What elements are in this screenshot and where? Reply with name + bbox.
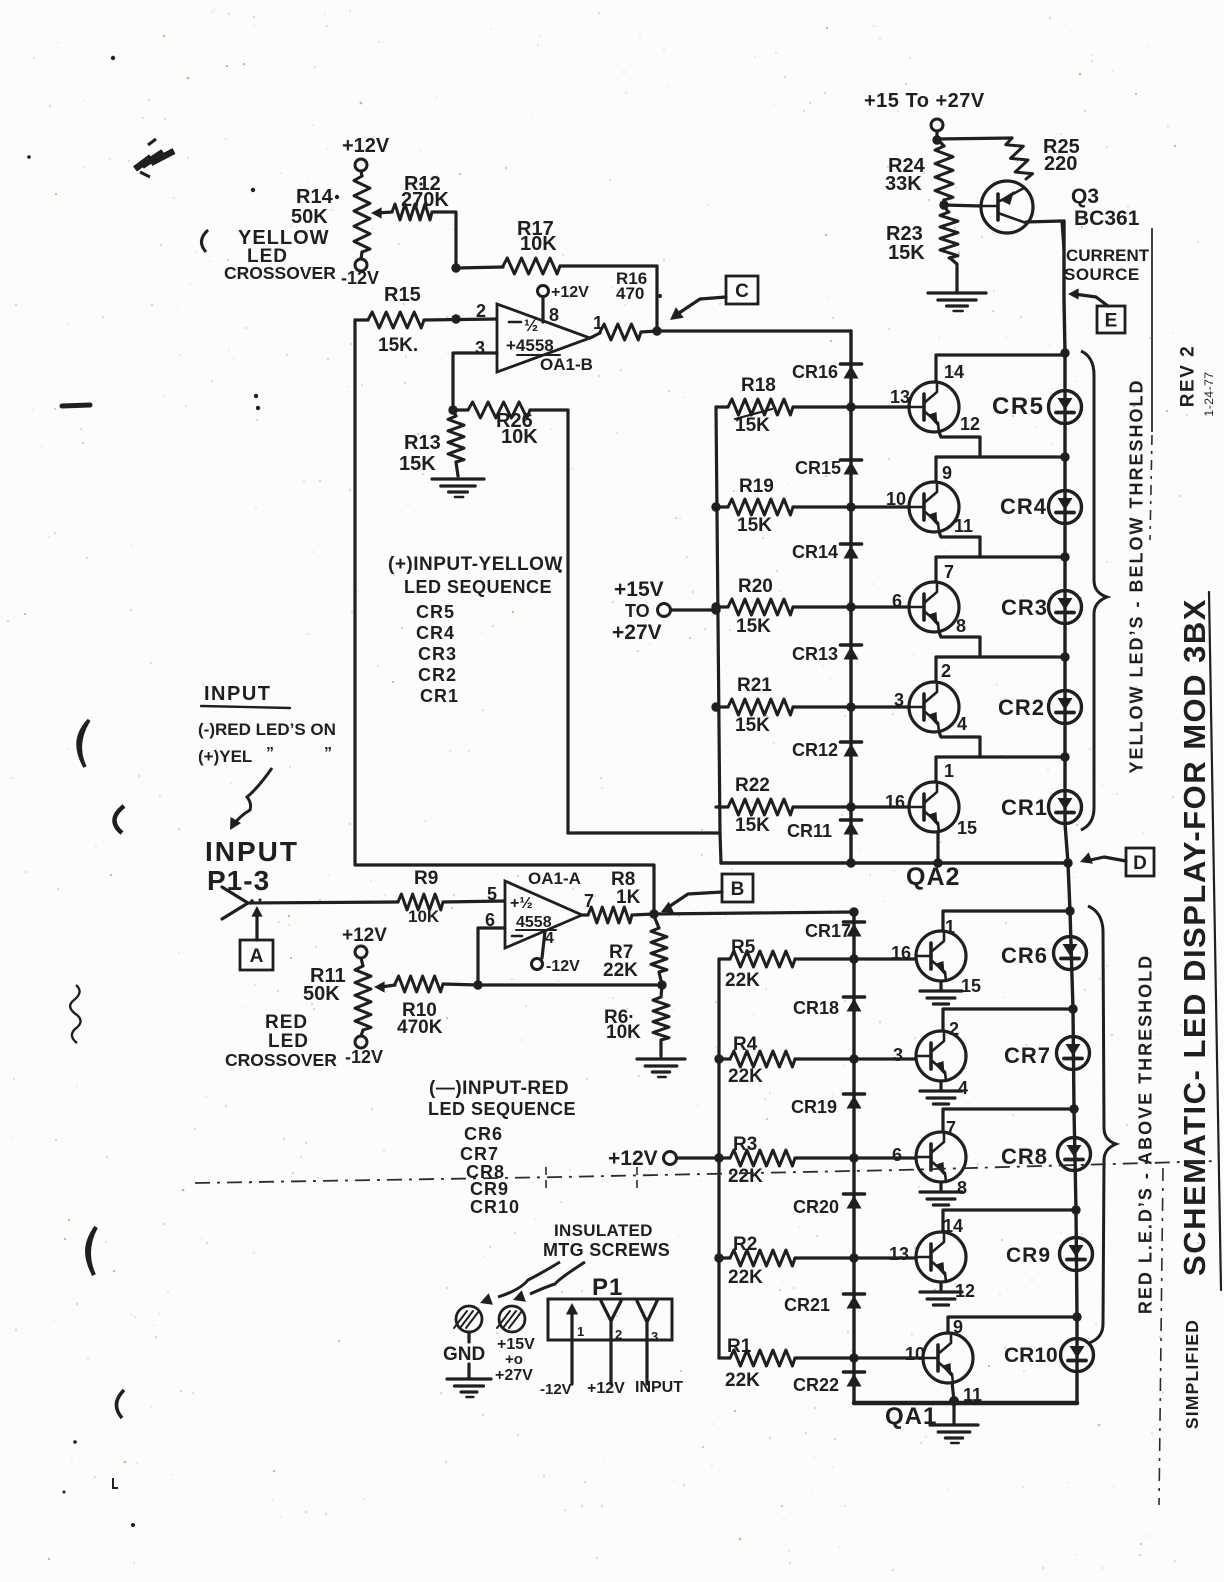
svg-text:1K: 1K — [616, 887, 641, 908]
svg-text:CR15: CR15 — [795, 458, 841, 478]
svg-text:15K.: 15K. — [378, 335, 418, 356]
svg-text:13: 13 — [890, 387, 910, 407]
svg-text:6: 6 — [892, 591, 902, 611]
svg-text:SOURCE: SOURCE — [1064, 265, 1140, 284]
svg-text:+12V: +12V — [608, 1147, 658, 1170]
svg-text:+4558: +4558 — [506, 336, 554, 355]
svg-text:CR6: CR6 — [1001, 943, 1048, 968]
svg-text:22K: 22K — [725, 970, 760, 991]
svg-text:R9: R9 — [414, 868, 438, 889]
svg-text:(+)YEL: (+)YEL — [198, 747, 252, 766]
svg-text:OA1-B: OA1-B — [540, 355, 593, 374]
svg-text:9: 9 — [942, 463, 952, 483]
svg-text:8: 8 — [956, 616, 966, 636]
svg-text:CR14: CR14 — [792, 542, 838, 562]
svg-text:MTG SCREWS: MTG SCREWS — [543, 1240, 670, 1260]
svg-text:”: ” — [266, 745, 274, 762]
svg-text:CR17: CR17 — [805, 921, 851, 941]
svg-text:4: 4 — [957, 714, 967, 734]
svg-text:CROSSOVER: CROSSOVER — [225, 1050, 337, 1070]
svg-text:LED SEQUENCE: LED SEQUENCE — [404, 577, 552, 597]
svg-text:+12V: +12V — [551, 284, 589, 301]
svg-text:5: 5 — [487, 884, 497, 904]
svg-text:CR3: CR3 — [418, 644, 457, 664]
svg-text:YELLOW LED’S - BELOW THRESHOLD: YELLOW LED’S - BELOW THRESHOLD — [1126, 379, 1146, 774]
svg-text:33K: 33K — [885, 173, 922, 195]
svg-text:7: 7 — [946, 1118, 956, 1138]
svg-text:2: 2 — [949, 1019, 959, 1039]
svg-text:+12V: +12V — [342, 135, 390, 157]
svg-text:R18: R18 — [741, 375, 776, 396]
svg-text:8: 8 — [549, 305, 559, 325]
svg-text:+12V: +12V — [587, 1380, 625, 1397]
svg-text:3: 3 — [651, 1329, 658, 1344]
svg-text:(-)RED LED’S ON: (-)RED LED’S ON — [198, 720, 336, 739]
svg-text:LED: LED — [268, 1031, 309, 1052]
svg-text:R4: R4 — [733, 1034, 758, 1055]
svg-text:15K: 15K — [735, 415, 770, 436]
svg-text:10: 10 — [905, 1344, 925, 1364]
svg-text:R14: R14 — [296, 186, 334, 208]
svg-text:INPUT: INPUT — [205, 836, 299, 867]
svg-text:1: 1 — [945, 917, 955, 937]
svg-text:CR4: CR4 — [1000, 494, 1047, 519]
svg-text:CROSSOVER: CROSSOVER — [224, 263, 336, 283]
svg-text:15: 15 — [957, 818, 977, 838]
svg-text:2: 2 — [615, 1327, 622, 1342]
svg-text:50K: 50K — [303, 983, 340, 1005]
svg-text:3: 3 — [894, 690, 904, 710]
svg-text:R21: R21 — [737, 675, 772, 696]
svg-text:16: 16 — [885, 792, 905, 812]
svg-text:1-24-77: 1-24-77 — [1202, 372, 1216, 417]
svg-text:CR9: CR9 — [1006, 1244, 1051, 1267]
svg-text:R20: R20 — [738, 576, 773, 597]
svg-text:15K: 15K — [737, 515, 772, 536]
svg-text:CR20: CR20 — [793, 1197, 839, 1217]
svg-text:+o: +o — [505, 1351, 523, 1368]
svg-text:15: 15 — [961, 976, 981, 996]
svg-text:+½: +½ — [510, 895, 533, 912]
svg-text:CR19: CR19 — [791, 1097, 837, 1117]
svg-text:1: 1 — [944, 761, 954, 781]
svg-text:INPUT: INPUT — [204, 683, 272, 705]
svg-text:-12V: -12V — [546, 958, 580, 975]
svg-text:P1: P1 — [592, 1274, 623, 1301]
svg-text:SIMPLIFIED: SIMPLIFIED — [1182, 1319, 1202, 1429]
svg-text:CR5: CR5 — [416, 602, 455, 622]
svg-text:470K: 470K — [397, 1017, 443, 1038]
svg-text:-12V: -12V — [341, 268, 379, 288]
svg-text:+15V: +15V — [614, 578, 664, 601]
svg-text:12: 12 — [955, 1281, 975, 1301]
svg-text:LED SEQUENCE: LED SEQUENCE — [428, 1099, 576, 1119]
svg-text:CR1: CR1 — [420, 686, 459, 706]
svg-text:CR22: CR22 — [793, 1375, 839, 1395]
svg-text:15K: 15K — [736, 616, 771, 637]
svg-text:CR7: CR7 — [1004, 1043, 1051, 1068]
svg-text:15K: 15K — [735, 715, 770, 736]
svg-text:R3: R3 — [733, 1134, 757, 1155]
svg-text:GND: GND — [443, 1344, 485, 1365]
svg-text:4558: 4558 — [516, 914, 552, 931]
svg-text:CR12: CR12 — [792, 740, 838, 760]
svg-text:R15: R15 — [384, 284, 421, 306]
svg-text:CR10: CR10 — [1004, 1344, 1058, 1367]
svg-text:A: A — [250, 946, 264, 967]
svg-text:CR2: CR2 — [998, 695, 1045, 720]
svg-text:CR6: CR6 — [464, 1124, 503, 1144]
svg-text:CR13: CR13 — [792, 644, 838, 664]
svg-text:22K: 22K — [728, 1267, 763, 1288]
svg-text:BC361: BC361 — [1074, 207, 1140, 230]
svg-text:R1: R1 — [727, 1336, 752, 1357]
svg-text:+12V: +12V — [342, 925, 387, 946]
svg-text:4: 4 — [958, 1078, 968, 1098]
svg-text:270K: 270K — [401, 189, 449, 211]
svg-text:CR4: CR4 — [416, 623, 455, 643]
svg-text:+27V: +27V — [612, 621, 662, 644]
svg-text:-12V: -12V — [540, 1381, 572, 1398]
svg-text:10K: 10K — [520, 233, 557, 255]
svg-text:CR11: CR11 — [787, 821, 832, 841]
svg-text:CR21: CR21 — [784, 1295, 830, 1315]
svg-text:(+)INPUT-YELLOW: (+)INPUT-YELLOW — [388, 554, 563, 575]
svg-text:C: C — [735, 281, 749, 302]
svg-text:10K: 10K — [501, 426, 538, 448]
svg-text:CR10: CR10 — [470, 1197, 520, 1217]
svg-text:14: 14 — [944, 362, 964, 382]
svg-text:QA2: QA2 — [906, 863, 960, 891]
svg-text:22K: 22K — [603, 960, 638, 981]
svg-text:10K: 10K — [408, 907, 440, 926]
svg-text:CR9: CR9 — [470, 1179, 509, 1199]
svg-text:CR5: CR5 — [992, 393, 1045, 420]
svg-text:CR18: CR18 — [793, 998, 839, 1018]
svg-text:Q3: Q3 — [1071, 185, 1099, 208]
svg-text:R5: R5 — [731, 937, 756, 958]
svg-text:CR2: CR2 — [418, 665, 457, 685]
svg-text:R19: R19 — [739, 476, 774, 497]
svg-text:2: 2 — [941, 661, 951, 681]
svg-text:6: 6 — [892, 1145, 902, 1165]
svg-text:3: 3 — [475, 338, 485, 358]
svg-text:13: 13 — [889, 1244, 909, 1264]
svg-text:470: 470 — [616, 284, 644, 303]
svg-text:½: ½ — [524, 316, 538, 335]
svg-text:50K: 50K — [291, 206, 328, 228]
svg-text:16: 16 — [891, 943, 911, 963]
svg-text:RED: RED — [265, 1012, 308, 1033]
svg-text:D: D — [1133, 853, 1147, 874]
svg-text:-12V: -12V — [345, 1047, 383, 1067]
svg-text:22K: 22K — [725, 1370, 760, 1391]
svg-text:22K: 22K — [728, 1066, 763, 1087]
svg-text:9: 9 — [953, 1317, 963, 1337]
svg-text:15K: 15K — [888, 242, 925, 264]
svg-text:11: 11 — [954, 516, 973, 536]
svg-text:INPUT: INPUT — [635, 1379, 683, 1396]
svg-text:15K: 15K — [399, 453, 436, 475]
svg-text:10K: 10K — [606, 1022, 641, 1043]
svg-text:SCHEMATIC- LED DISPLAY-FOR MO: SCHEMATIC- LED DISPLAY-FOR MOD 3BX — [1177, 598, 1212, 1276]
svg-text:R13: R13 — [404, 432, 441, 454]
svg-text:E: E — [1105, 310, 1118, 331]
svg-text:2: 2 — [476, 301, 486, 321]
svg-text:CR3: CR3 — [1001, 595, 1048, 620]
svg-text:CR7: CR7 — [460, 1144, 499, 1164]
svg-text:CR16: CR16 — [792, 362, 838, 382]
svg-text:8: 8 — [957, 1178, 967, 1198]
svg-text:CR1: CR1 — [1001, 795, 1048, 820]
svg-text:CURRENT: CURRENT — [1066, 246, 1150, 265]
svg-text:15K: 15K — [735, 815, 770, 836]
svg-text:REV 2: REV 2 — [1178, 345, 1199, 407]
svg-text:OA1-A: OA1-A — [528, 869, 581, 888]
svg-text:R2: R2 — [733, 1234, 757, 1255]
svg-text:12: 12 — [960, 414, 980, 434]
svg-text:10: 10 — [886, 489, 906, 509]
svg-text:QA1: QA1 — [885, 1403, 937, 1430]
svg-text:220: 220 — [1044, 153, 1077, 175]
svg-text:P1-3: P1-3 — [207, 865, 270, 896]
svg-text:7: 7 — [944, 562, 954, 582]
svg-text:3: 3 — [893, 1045, 903, 1065]
svg-text:+27V: +27V — [495, 1367, 533, 1384]
svg-text:”: ” — [324, 745, 332, 762]
svg-text:R22: R22 — [735, 775, 770, 796]
svg-text:B: B — [731, 879, 745, 900]
svg-text:TO: TO — [625, 601, 650, 621]
svg-text:RED L.E.D’S - ABOVE THRESHOLD: RED L.E.D’S - ABOVE THRESHOLD — [1135, 954, 1155, 1314]
svg-text:+15 To +27V: +15 To +27V — [864, 90, 985, 112]
svg-text:(—)INPUT-RED: (—)INPUT-RED — [429, 1078, 569, 1099]
svg-text:INSULATED: INSULATED — [554, 1221, 653, 1240]
svg-text:22K: 22K — [728, 1166, 763, 1187]
svg-text:14: 14 — [943, 1216, 963, 1236]
svg-text:1: 1 — [577, 1324, 584, 1339]
